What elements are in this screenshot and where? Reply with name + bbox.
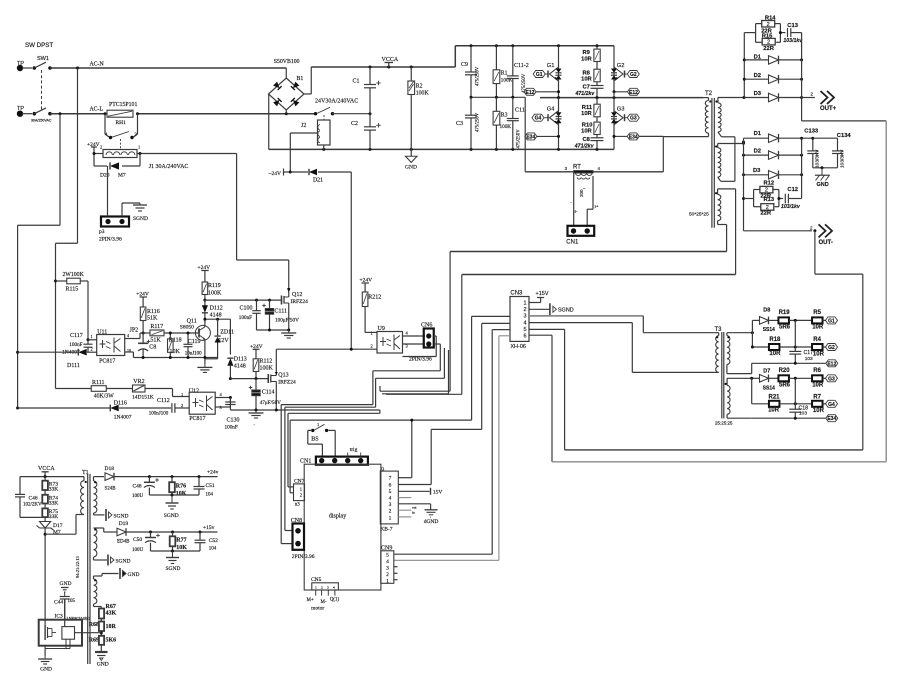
svg-text:475/250V: 475/250V <box>517 129 522 149</box>
switch BS <box>308 422 335 457</box>
svg-text:GND: GND <box>128 572 140 578</box>
jumper JP2 node <box>125 328 150 339</box>
svg-text:2: 2 <box>181 403 183 408</box>
resistor R3 100K <box>493 97 511 149</box>
transistor Q11 S8050 <box>180 319 211 365</box>
connector CN7 n3 <box>294 479 305 508</box>
svg-text:ED4B: ED4B <box>117 540 130 545</box>
svg-text:R20: R20 <box>779 368 791 374</box>
wire E34 row (T3) <box>752 417 826 420</box>
capacitor C51 104 <box>194 477 215 498</box>
capacitor C130 100nF <box>225 398 240 431</box>
svg-text:SS14: SS14 <box>763 386 775 392</box>
svg-text:3: 3 <box>327 586 329 590</box>
svg-text:G3: G3 <box>828 376 835 382</box>
svg-text:R116: R116 <box>147 309 160 315</box>
svg-text:R5: R5 <box>813 310 821 316</box>
wire OUT- return loop right <box>815 231 863 450</box>
svg-text:100K: 100K <box>500 124 512 130</box>
svg-text:102/2KV: 102/2KV <box>23 503 42 508</box>
resistor R119 100K <box>202 282 222 300</box>
svg-text:BS: BS <box>311 436 318 442</box>
svg-text:100U: 100U <box>132 494 144 499</box>
svg-text:2: 2 <box>524 307 527 313</box>
wire T2 sec3 top to CN8 pin1 <box>285 275 736 531</box>
wire Q13 drain to U9 pin2 row <box>276 348 377 351</box>
svg-text:1: 1 <box>91 334 93 339</box>
wire KB7 pin2 stub <box>398 510 415 514</box>
svg-text:GND: GND <box>40 667 52 673</box>
svg-text:G1: G1 <box>828 318 835 324</box>
svg-text:R212: R212 <box>368 295 381 301</box>
svg-text:D111: D111 <box>67 363 80 369</box>
svg-text:C44: C44 <box>54 600 63 606</box>
transistor Q3 (G3) IGBT <box>611 98 625 150</box>
svg-text:C114: C114 <box>262 390 275 396</box>
svg-text:CN3: CN3 <box>510 291 523 297</box>
port OUT- <box>744 224 833 245</box>
svg-text:OUT+: OUT+ <box>820 106 837 112</box>
node E12 hexagon (T3) <box>826 360 838 368</box>
capacitor C46 102/2KV <box>15 477 45 518</box>
svg-text:AC-N: AC-N <box>90 62 105 68</box>
svg-text:M-: M- <box>321 600 327 605</box>
svg-text:33K: 33K <box>49 487 59 493</box>
resistor R19 5R6 <box>778 310 812 331</box>
power VCCA (aux) <box>38 466 55 477</box>
capacitor C114 47uF/50V <box>249 379 281 410</box>
svg-text:D112: D112 <box>210 306 223 312</box>
svg-text:C11: C11 <box>515 108 525 114</box>
svg-text:R11: R11 <box>582 105 593 111</box>
svg-text:S8050: S8050 <box>180 325 194 331</box>
T1 primary winding <box>45 477 87 535</box>
wire +24v filter bottom row <box>149 494 199 497</box>
svg-text:SGND: SGND <box>133 216 148 222</box>
svg-text:6: 6 <box>389 482 392 488</box>
svg-text:C17: C17 <box>804 350 814 356</box>
svg-text:SGND: SGND <box>558 307 574 313</box>
svg-text:R9: R9 <box>583 50 591 56</box>
varistor VR2 14D151K <box>132 379 173 401</box>
wire U9 pin4 to CN6 <box>403 335 426 337</box>
svg-text:KB-7: KB-7 <box>380 527 392 533</box>
svg-text:U12: U12 <box>189 389 199 395</box>
svg-text:1: 1 <box>315 586 317 590</box>
svg-text:D1: D1 <box>754 131 762 137</box>
wire AC-N <box>50 62 286 70</box>
ground SGND (T1 sec1) <box>106 509 129 521</box>
svg-text:D116: D116 <box>114 401 127 407</box>
IC3 controller <box>39 614 102 657</box>
svg-text:C130: C130 <box>227 418 240 424</box>
svg-text:4: 4 <box>524 320 527 326</box>
wire KB7 pin4 stub <box>398 497 411 499</box>
node G1 hexagon (T3) <box>826 317 838 325</box>
node G1 hexagon <box>533 71 548 79</box>
wire U12 pin3 <box>215 400 230 408</box>
diode D2 (top group) <box>744 73 803 83</box>
svg-text:GND: GND <box>97 662 109 668</box>
svg-text:+24v: +24v <box>207 470 219 476</box>
svg-text:100nJ100: 100nJ100 <box>149 412 169 417</box>
zener ZD11 12V <box>205 319 234 359</box>
wire OUT+ sense loop right <box>885 121 887 462</box>
resistor R8 10R <box>581 69 600 85</box>
diode D21 <box>290 169 351 184</box>
capacitor C2 <box>351 114 381 150</box>
relay contact J2 24V30A/240VAC <box>314 99 372 121</box>
svg-text:1N4007: 1N4007 <box>114 414 132 420</box>
wire AC-N branch down-left <box>56 68 78 389</box>
svg-text:SGND: SGND <box>166 566 181 572</box>
node G3 hexagon (T3) <box>826 375 838 383</box>
ground SGND at p3 <box>133 203 148 222</box>
wire aux top rail <box>20 475 84 478</box>
svg-text:display: display <box>329 514 346 520</box>
svg-text:R76: R76 <box>176 484 186 490</box>
svg-text:JP2: JP2 <box>130 328 139 334</box>
connector CN1 (display strip) <box>300 447 368 465</box>
wire CN3 pin3 left to KB7 pin7 and CN7 pin2 <box>290 316 510 492</box>
svg-text:C9: C9 <box>461 62 468 68</box>
svg-text:+15v: +15v <box>203 525 215 531</box>
resistor R6 10R <box>812 368 826 389</box>
svg-text:R119: R119 <box>208 283 221 289</box>
svg-text:4: 4 <box>127 333 129 338</box>
svg-text:R4: R4 <box>813 337 821 343</box>
svg-text:40K/3W: 40K/3W <box>94 394 114 400</box>
svg-text:B1: B1 <box>297 76 304 82</box>
svg-text:50*25*25: 50*25*25 <box>689 212 709 218</box>
svg-text:43K: 43K <box>106 611 117 617</box>
resistor R76 10K <box>169 477 187 497</box>
svg-text:J1 30A/240VAC: J1 30A/240VAC <box>149 164 189 170</box>
svg-text:1: 1 <box>524 301 527 307</box>
svg-text:R7: R7 <box>813 395 821 401</box>
svg-text:R111: R111 <box>92 380 105 386</box>
port OUT+ <box>802 91 837 112</box>
svg-text:C134: C134 <box>837 133 852 139</box>
diode D2 (bottom group) <box>742 149 803 160</box>
svg-text:motor: motor <box>311 606 324 612</box>
svg-text:PC817: PC817 <box>99 359 115 365</box>
svg-text:2PIN/3.96: 2PIN/3.96 <box>292 554 315 560</box>
svg-text:1: 1 <box>389 515 392 521</box>
svg-text:C52: C52 <box>209 538 218 544</box>
svg-text:M+: M+ <box>307 598 314 603</box>
resistor R111 40K/3W <box>56 380 133 400</box>
resistor R117 51K <box>150 324 199 343</box>
svg-text:SGND: SGND <box>164 513 179 519</box>
svg-text:p3: p3 <box>99 229 105 235</box>
connector KB-7 <box>380 466 398 532</box>
svg-text:103: 103 <box>805 356 813 362</box>
svg-text:10K: 10K <box>176 491 187 497</box>
T1 secondary winding +15v <box>94 528 108 560</box>
wire lower ground row <box>230 409 330 412</box>
svg-text:51K: 51K <box>147 316 158 322</box>
capacitor C13 103/1kv <box>783 23 803 44</box>
capacitor C50 100U <box>132 532 160 553</box>
capacitor C8 471/2kv <box>574 137 604 150</box>
wire D112 to D113 row <box>203 318 230 355</box>
power VCCA <box>382 57 399 67</box>
transformer T2 50*25*25 <box>689 91 714 228</box>
svg-text:GND: GND <box>60 581 72 587</box>
svg-text:4148: 4148 <box>210 312 222 318</box>
svg-text:CN5: CN5 <box>311 577 322 583</box>
svg-text:104: 104 <box>209 547 217 552</box>
svg-text:PTC15P101: PTC15P101 <box>109 102 137 108</box>
svg-text:OUT-: OUT- <box>819 240 833 246</box>
svg-text:C46: C46 <box>29 496 38 502</box>
svg-text:100nF: 100nF <box>69 342 82 348</box>
svg-text:4148: 4148 <box>234 364 246 370</box>
wire anode bus bottom group <box>742 138 745 231</box>
capacitor C18 103 <box>789 378 808 418</box>
optocoupler U12 PC817 <box>189 389 223 422</box>
wire cathode bus top group <box>802 33 887 121</box>
svg-text:C8: C8 <box>149 345 156 351</box>
T1 winding aux (GND tap) <box>94 574 119 609</box>
resistor R112 100K <box>253 359 273 379</box>
svg-text:RH1: RH1 <box>116 120 127 126</box>
svg-text:D2: D2 <box>754 73 761 79</box>
node E34 hexagon right <box>613 133 664 141</box>
svg-text:10R: 10R <box>812 325 824 331</box>
svg-text:C8: C8 <box>583 137 591 143</box>
wire Q13 gate row <box>230 377 268 380</box>
svg-text:XH-06: XH-06 <box>510 344 526 350</box>
svg-text:IRFZ24: IRFZ24 <box>278 380 296 386</box>
svg-text:G2: G2 <box>617 63 625 69</box>
capacitor C8 (control) <box>138 340 156 358</box>
ground GND above C44 <box>60 581 72 597</box>
svg-text:2: 2 <box>386 572 389 578</box>
svg-text:10R: 10R <box>768 408 780 414</box>
svg-text:100K: 100K <box>260 366 274 372</box>
diode D20 M7 <box>94 162 140 178</box>
capacitor C52 104 <box>195 532 219 552</box>
wire CN3 pin5 right jog to E-return <box>529 329 863 450</box>
wire gate row Q12 <box>205 299 282 302</box>
wire CN3 pin3 to T3 primary top <box>529 316 715 333</box>
svg-text:5R6: 5R6 <box>779 325 791 331</box>
switch SW1 DPST AC input <box>17 42 54 123</box>
svg-text:D21: D21 <box>313 178 323 184</box>
svg-text:~24V: ~24V <box>269 171 281 177</box>
svg-text:CN1: CN1 <box>300 459 311 465</box>
svg-text:E34: E34 <box>629 134 638 140</box>
svg-text:C13: C13 <box>787 23 798 29</box>
svg-text:D20: D20 <box>100 173 110 179</box>
svg-text:IC3: IC3 <box>55 614 64 620</box>
svg-text:PC817: PC817 <box>189 416 205 422</box>
svg-text:AC-L: AC-L <box>90 107 104 113</box>
svg-text:.: . <box>254 422 255 427</box>
ground GND arrow (T1) <box>120 568 139 579</box>
wire cap ground row Q12 <box>257 329 291 332</box>
svg-text:2PIN/3.96: 2PIN/3.96 <box>99 237 122 243</box>
svg-text:SGND: SGND <box>116 559 131 565</box>
svg-text:C50: C50 <box>133 537 142 543</box>
svg-text:T2: T2 <box>705 91 713 97</box>
svg-text:6: 6 <box>524 334 527 340</box>
svg-text:10R: 10R <box>769 351 781 357</box>
diode D113 4148 <box>227 357 246 381</box>
svg-text:E34: E34 <box>827 416 836 422</box>
svg-text:105: 105 <box>68 599 76 604</box>
svg-text:103/3KV: 103/3KV <box>840 149 846 168</box>
svg-text:10R: 10R <box>581 129 592 135</box>
svg-text:12V: 12V <box>218 338 229 344</box>
svg-text:VR2: VR2 <box>133 379 144 385</box>
resistor R18 10R <box>751 337 812 357</box>
svg-text:15V: 15V <box>433 490 443 496</box>
svg-text:3: 3 <box>389 502 392 508</box>
resistor R7 10R <box>812 395 826 414</box>
wire half-bridge midline E12 <box>540 92 703 99</box>
wire +15v filter bottom row <box>151 550 201 553</box>
capacitor C112 100nJ100 <box>149 398 189 417</box>
diode D17 M7 (TVS) <box>37 519 63 620</box>
svg-text:ZD11: ZD11 <box>220 330 234 336</box>
ground GND (C114) <box>249 410 264 427</box>
wire CN9 pin1 stub <box>394 579 398 581</box>
capacitor C9 475/250V <box>461 46 481 98</box>
capacitor C119 10nJ100 <box>184 332 203 358</box>
svg-text:E12: E12 <box>827 361 836 367</box>
wire T2 sec3 bottom to CN8 pin2 <box>281 252 726 544</box>
wire KB7 pin7 stub <box>398 477 412 479</box>
capacitor C12 103/1kv <box>781 187 802 210</box>
svg-text:2: 2 <box>371 344 373 349</box>
svg-text:4: 4 <box>333 586 335 590</box>
resistor R116 51K <box>140 307 159 343</box>
svg-text:10R: 10R <box>813 351 825 357</box>
svg-text:E12: E12 <box>526 90 535 96</box>
resistor R74 33K <box>42 495 58 509</box>
svg-text:R68: R68 <box>89 622 99 628</box>
svg-text:trig: trig <box>350 447 358 453</box>
svg-text:C7: C7 <box>583 85 590 91</box>
svg-text:103/3KV: 103/3KV <box>815 149 821 168</box>
ground SGND (R76) <box>164 495 179 519</box>
svg-text:103: 103 <box>799 411 807 417</box>
power +15V (KB7 pin5) <box>398 488 442 496</box>
svg-text:10R: 10R <box>813 408 825 414</box>
svg-text:33K: 33K <box>49 514 59 520</box>
resistor R4 10R <box>812 337 826 357</box>
wire CN3 pin4 left to KB7 pin6 <box>431 323 510 484</box>
svg-text:R1: R1 <box>501 71 508 77</box>
svg-text:4: 4 <box>389 496 392 502</box>
svg-text:C12: C12 <box>787 187 798 193</box>
resistor R69 5K6 <box>89 636 116 652</box>
svg-text:+15V: +15V <box>536 291 549 297</box>
svg-text:S24B: S24B <box>105 487 117 492</box>
capacitor C134 103/3KV <box>813 133 852 169</box>
svg-text:C3: C3 <box>456 121 463 127</box>
svg-text:475/250V: 475/250V <box>476 112 481 132</box>
svg-text:J2: J2 <box>301 123 306 129</box>
svg-text:47μF/50V: 47μF/50V <box>260 400 281 406</box>
svg-text:2PIN/3.96: 2PIN/3.96 <box>409 357 432 363</box>
svg-text:2: 2 <box>321 586 323 590</box>
display box <box>304 464 381 590</box>
svg-text:R19: R19 <box>779 310 791 316</box>
svg-text:2W100K: 2W100K <box>63 272 85 278</box>
resistor R68 10R <box>89 622 117 636</box>
svg-text:C11-2: C11-2 <box>514 63 529 69</box>
svg-text:M7: M7 <box>118 173 126 179</box>
svg-text:SW1: SW1 <box>37 56 49 62</box>
svg-text:SS14: SS14 <box>763 327 775 333</box>
transistor Q2 (G2) IGBT <box>611 46 625 92</box>
svg-text:D8: D8 <box>763 308 770 314</box>
svg-text:51K: 51K <box>150 337 161 343</box>
relay contact RH1 (bypass) <box>105 114 138 149</box>
svg-text:n3: n3 <box>295 503 301 508</box>
diode D3 (bottom group) <box>742 168 803 179</box>
relay coil J2 <box>290 120 330 172</box>
resistor R11 10R <box>581 98 600 123</box>
wire AC-L <box>50 107 316 116</box>
wire J1 pin1 to Q12 drain <box>137 152 290 292</box>
wire capacitor midpoint rail <box>470 96 526 172</box>
transistor Q12 IRFZ24 <box>282 289 309 330</box>
svg-text:D18: D18 <box>105 466 115 472</box>
relay coil J1 30A/240VAC <box>100 145 188 171</box>
wire CN9 pin2 stub <box>394 572 398 574</box>
svg-text:4: 4 <box>386 559 389 565</box>
wire cathode bus bottom group <box>801 138 803 198</box>
svg-text:2: 2 <box>389 509 392 515</box>
svg-text:2: 2 <box>300 492 302 497</box>
wire CN6 pin2 right elbow to CN8 chain <box>373 344 440 371</box>
capacitor C7 471/2kv <box>575 85 604 98</box>
wire CN3 pin4 to T3 primary bottom <box>529 323 715 373</box>
svg-text:24V30A/240VAC: 24V30A/240VAC <box>315 99 358 105</box>
svg-text:S50VB100: S50VB100 <box>274 59 300 65</box>
diode D116 1N4007 <box>16 401 171 421</box>
node G2 hexagon (T3) <box>826 344 838 352</box>
bridge rectifier B1 S50VB100 <box>269 59 312 149</box>
resistor R5 10R <box>812 310 826 331</box>
svg-text:Q13: Q13 <box>278 373 288 379</box>
T2 primary winding <box>663 98 711 137</box>
svg-text:C133: C133 <box>804 128 819 134</box>
resistor R212 <box>362 292 381 332</box>
capacitor C44 105 <box>54 597 76 620</box>
R14/R15 parallel frame <box>743 24 786 98</box>
current transformer RT <box>525 136 663 175</box>
svg-text:10R: 10R <box>581 111 592 117</box>
svg-text:GND: GND <box>817 182 829 188</box>
transistor Q13 IRFZ24 <box>268 349 296 410</box>
svg-text:SGND: SGND <box>114 513 129 519</box>
node G4 hexagon <box>532 114 548 122</box>
svg-text:100K: 100K <box>416 91 430 97</box>
capacitor C1 <box>353 67 381 114</box>
wire ground row to CN7 pin1 <box>288 410 380 487</box>
connector CN5 motor <box>307 577 340 612</box>
wire CN3 pin5 left to CN9 pin5 <box>394 330 510 555</box>
optocoupler U9 <box>365 326 408 353</box>
wire U9 pin3 to CN6 <box>403 343 426 345</box>
svg-text:103/1kv: 103/1kv <box>783 38 803 44</box>
